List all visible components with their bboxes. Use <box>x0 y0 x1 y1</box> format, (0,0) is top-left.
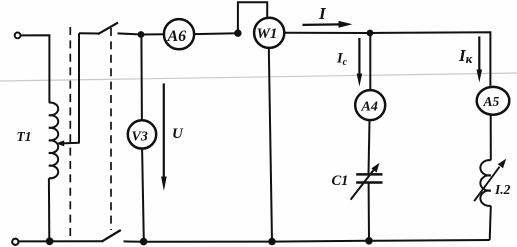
wire from transformer bottom to bottom rail <box>48 178 50 241</box>
wire from switch contact to node A <box>118 33 142 34</box>
svg-text:U: U <box>172 126 184 142</box>
wire A6 to junction at W1 <box>194 32 238 35</box>
transformer T1 winding <box>49 103 58 179</box>
wire V3 to bottom rail <box>142 149 144 241</box>
wire node B down to A4 <box>369 33 371 90</box>
svg-text:A5: A5 <box>483 94 500 109</box>
svg-text:W1: W1 <box>257 26 278 42</box>
wire L2 to bottom rail corner <box>490 206 491 240</box>
svg-text:A4: A4 <box>361 100 378 115</box>
wattmeter W1 <box>254 18 284 48</box>
switch linkage dashed line (right) <box>110 28 112 230</box>
node A (junction dot, top of V3 branch) <box>138 31 145 38</box>
svg-text:Iк: Iк <box>458 46 473 66</box>
junction dot V3 bottom <box>140 238 148 246</box>
junction dot T1 bottom <box>46 237 54 245</box>
svg-text:I.2: I.2 <box>494 182 511 197</box>
current arrow Ic <box>357 38 363 87</box>
wiper tap arrow of T1 <box>56 140 79 146</box>
switch linkage dashed line (left) <box>69 27 71 237</box>
svg-text:Ic: Ic <box>336 51 348 69</box>
wire V3 branch from node A down to voltmeter <box>140 35 143 121</box>
bottom rail wire from terminal to switch hinge <box>18 240 104 242</box>
junction dot at W1 current coil <box>234 29 241 36</box>
inductor L2 winding (variable) <box>480 160 490 206</box>
capacitor C1 (variable) <box>351 163 383 200</box>
voltage arrow U <box>161 83 167 191</box>
svg-text:T1: T1 <box>17 129 32 144</box>
wire node A to ammeter A6 <box>141 33 164 35</box>
ammeter A5 <box>477 87 510 115</box>
wire node B to top-right corner and down to A5 <box>370 32 490 86</box>
arrow through L2 <box>474 159 506 202</box>
wire C1 to bottom rail <box>368 183 370 241</box>
switch S bottom pole blade <box>102 230 121 241</box>
current arrow I <box>303 21 353 28</box>
node B (junction dot, top of A4 branch) <box>367 30 374 37</box>
svg-text:C1: C1 <box>332 173 349 189</box>
wire A4 to capacitor C1 <box>369 120 370 174</box>
terminal (bottom input) <box>12 239 18 245</box>
wire W1 to node B <box>284 32 370 34</box>
svg-text:I: I <box>318 4 327 23</box>
wattmeter W1 voltage-coil bracket wire <box>238 2 267 33</box>
wire A5 to inductor L2 <box>490 115 492 160</box>
wire from top terminal to transformer top <box>21 35 50 102</box>
bottom rail wire from switch contact to right corner <box>124 240 490 242</box>
current arrow Ik <box>477 36 483 82</box>
wire from wiper up to switch pole <box>78 33 80 143</box>
terminal (top input) <box>15 33 21 39</box>
voltmeter V3 <box>128 120 156 148</box>
junction dot W1 bottom <box>268 238 276 246</box>
svg-text:A6: A6 <box>167 28 187 45</box>
wire from W1 down to bottom rail <box>269 48 272 242</box>
switch S top pole (hinge wire and blade) <box>79 23 118 35</box>
ammeter A4 <box>355 90 385 120</box>
svg-text:V3: V3 <box>132 129 148 144</box>
junction dot C1 bottom <box>365 237 373 245</box>
ammeter A6 <box>164 19 194 49</box>
